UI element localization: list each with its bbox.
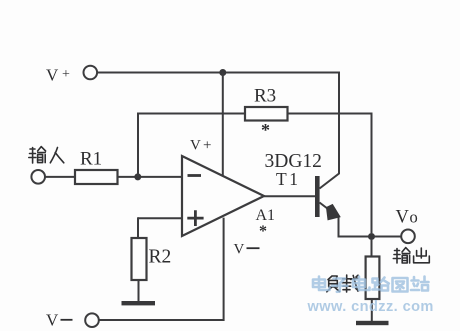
子	[332, 279, 348, 292]
terminal V+	[84, 66, 98, 80]
wire input to R1	[45, 176, 75, 178]
svg-text:R2: R2	[149, 247, 172, 268]
svg-text:R1: R1	[80, 149, 102, 170]
resistor load	[366, 257, 380, 300]
站	[411, 277, 429, 291]
terminal input	[31, 170, 45, 184]
node top junction	[219, 69, 226, 76]
wire R3 to output node	[288, 114, 372, 234]
wire load to ground	[371, 299, 373, 321]
wire plus input	[138, 217, 182, 219]
op-amp minus input sign	[188, 174, 202, 177]
terminal Vo	[401, 230, 415, 244]
wire top rail	[97, 72, 339, 74]
wire output	[375, 236, 402, 238]
wire R1 to op-amp inverting input	[118, 176, 183, 178]
wire output node to load	[371, 240, 373, 257]
watermark line 1: 电子电路图站	[313, 277, 429, 292]
svg-text:V: V	[46, 66, 59, 85]
svg-text:A1: A1	[256, 207, 276, 224]
ground load	[356, 321, 389, 325]
图	[393, 278, 408, 292]
transistor T1 base bar	[315, 176, 320, 217]
svg-text:R3: R3	[254, 86, 276, 107]
svg-text:o: o	[410, 208, 418, 227]
svg-text:+: +	[203, 138, 211, 154]
wire collector drop	[320, 72, 340, 189]
resistor R3	[245, 107, 288, 121]
label 输出 (output)	[393, 248, 429, 263]
label 负载 (load)	[327, 275, 359, 292]
svg-text:V: V	[396, 208, 410, 228]
node inverting input junction	[134, 173, 141, 180]
svg-text:*: *	[261, 120, 270, 140]
transistor T1 emitter with arrow	[320, 203, 369, 237]
resistor R2	[132, 238, 147, 280]
ground R2	[122, 301, 156, 305]
svg-text:V: V	[190, 138, 201, 154]
wire base	[264, 195, 315, 197]
op-amp plus input sign	[187, 210, 203, 226]
svg-text:V: V	[234, 242, 245, 258]
terminal V-	[85, 313, 99, 327]
wire op-amp V- pin and bottom rail	[99, 218, 224, 320]
label 输入 (input)	[29, 147, 64, 163]
wire R2 to ground	[138, 280, 140, 302]
路	[373, 278, 389, 291]
wire feedback left vertical	[138, 114, 245, 177]
svg-text:*: *	[259, 223, 267, 240]
node output junction	[368, 233, 375, 240]
svg-text:+: +	[62, 67, 70, 82]
wire plus input down to R2	[137, 217, 139, 238]
transistor T1 emitter arrow	[327, 205, 341, 220]
svg-text:V: V	[46, 311, 59, 330]
resistor R1	[75, 170, 118, 184]
svg-text:T1: T1	[276, 169, 300, 189]
电	[353, 277, 370, 291]
wire op-amp V+ pin	[222, 73, 224, 177]
svg-text:www. cndzz. com: www. cndzz. com	[307, 299, 434, 315]
电	[313, 277, 330, 291]
op-amp A1	[182, 156, 264, 236]
